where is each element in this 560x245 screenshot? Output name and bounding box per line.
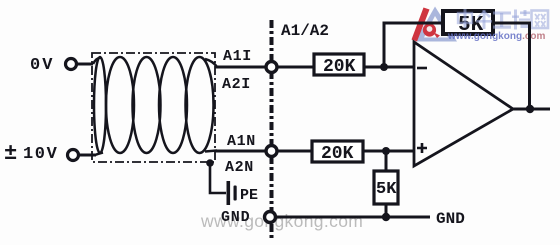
terminal ±10V [68, 150, 79, 161]
svg-text:A1I: A1I [223, 48, 252, 65]
svg-text:A2N: A2N [225, 159, 254, 176]
resistor 20K bottom [312, 141, 363, 164]
twisted pair cable coil [93, 57, 217, 155]
boundary dash-dot line A1/A2 [270, 20, 274, 241]
wire coil to node A1I [215, 66, 266, 69]
feedback wire from 5K to output [493, 23, 530, 109]
watermark logo top right (gongkong) [412, 7, 458, 42]
wire ±10V to cable [78, 154, 96, 157]
svg-text:A1N: A1N [227, 133, 256, 150]
svg-text:10V: 10V [23, 145, 58, 164]
svg-text:A1/A2: A1/A2 [281, 22, 329, 40]
wire 5K bottom vertical [385, 151, 388, 217]
wire shield to PE [210, 163, 226, 193]
node A1N/A2N [266, 146, 277, 157]
wire GND rail [275, 216, 430, 219]
junction output [526, 105, 534, 113]
resistor 20K top [314, 54, 364, 77]
watermark chinese chars and url (over box) [458, 9, 548, 30]
wire node to 20K top [277, 66, 314, 69]
junction GND [382, 213, 390, 221]
output wire [513, 108, 550, 111]
svg-text:20K: 20K [321, 144, 354, 164]
svg-text:0V: 0V [30, 56, 54, 75]
svg-text:A2I: A2I [222, 76, 251, 93]
wire node to 20K bottom [277, 150, 312, 153]
resistor 5K feedback [443, 11, 493, 37]
svg-text:5K: 5K [376, 180, 397, 199]
svg-text:±: ± [4, 141, 17, 166]
wire coil to node A1N [215, 150, 266, 153]
junction 5K bottom top [382, 147, 390, 155]
shield drain junction [206, 159, 214, 167]
wire 20K top to op-amp minus [364, 66, 414, 69]
op-amp [414, 42, 513, 166]
svg-text:GND: GND [221, 209, 250, 226]
node GND [265, 212, 276, 223]
wire 20K bottom to op-amp plus [363, 150, 414, 153]
wire 0V to cable [76, 63, 93, 66]
svg-text:PE: PE [240, 187, 258, 204]
PE symbol bars [227, 181, 237, 205]
junction feedback top [380, 63, 388, 71]
svg-text:20K: 20K [323, 57, 356, 77]
feedback wire up from minus junction [384, 23, 443, 67]
svg-text:GND: GND [436, 210, 465, 228]
resistor 5K to GND [374, 171, 398, 204]
shield box (dash-dot) [92, 53, 215, 162]
terminal 0V [66, 59, 77, 70]
node A1I/A2I [266, 62, 277, 73]
